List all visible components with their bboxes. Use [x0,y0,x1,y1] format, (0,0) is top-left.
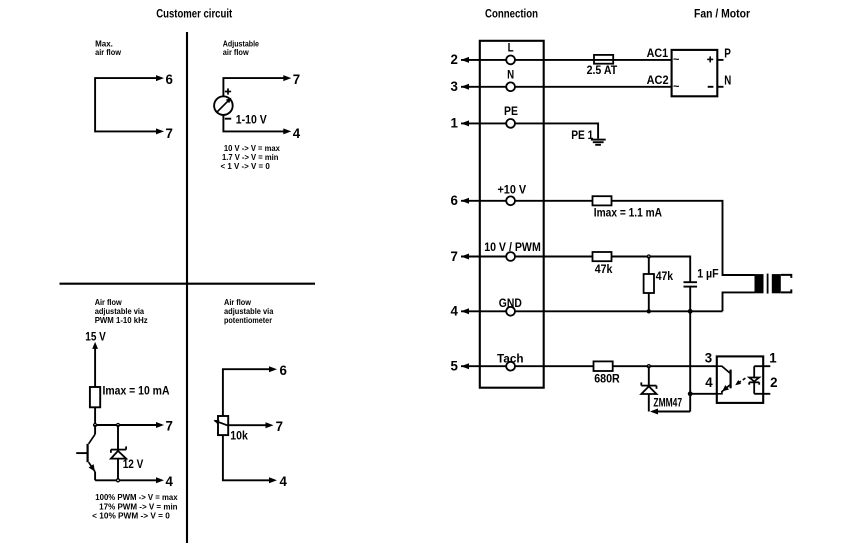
wire emitter to 4 (PWM quadrant) [95,477,164,483]
svg-text:10 V -> V = max: 10 V -> V = max [224,144,281,153]
terminal PE pin 1 arrow and wire [461,120,506,126]
svg-text:~: ~ [673,54,680,66]
optocoupler LED [749,366,759,394]
svg-text:47k: 47k [595,262,613,276]
stub P [717,59,723,61]
svg-text:6: 6 [166,71,174,87]
transistor Q1 emitter [89,462,96,480]
pin number 1 [451,115,459,131]
wire to 4 (potentiometer quadrant) [223,435,277,483]
transistor Q1 collector wire [89,425,96,444]
optocoupler U1 box [717,356,763,403]
terminal 10 V / PWM circle [506,252,515,261]
svg-text:potentiometer: potentiometer [224,315,273,325]
wire GND row [515,310,723,312]
label Max. air flow [95,38,121,57]
wire resistor to node [94,407,96,425]
svg-text:5: 5 [451,358,459,374]
terminal PE circle [506,119,515,128]
wire to 6 (max air flow) [95,75,164,134]
wire GND down to optocoupler pin 4 [689,311,691,394]
terminal label Tach [497,353,524,365]
note voltage levels [221,144,281,171]
svg-text:AC2: AC2 [647,73,669,87]
svg-text:Connection: Connection [485,7,538,21]
svg-text:7: 7 [293,71,301,87]
svg-text:1: 1 [769,350,777,366]
connection box [480,41,544,388]
svg-text:4: 4 [280,473,288,489]
terminal +10 V circle [506,196,515,205]
svg-text:10 V / PWM: 10 V / PWM [484,242,541,254]
zener diode ZMM47 [641,366,656,411]
svg-text:6: 6 [451,192,459,208]
terminal label 10 V / PWM [484,242,541,254]
svg-text:4: 4 [705,374,713,390]
stub pin 1 [754,365,770,367]
value 47k (vertical) [656,269,674,283]
title Customer circuit [156,7,232,21]
motor core line [767,274,769,294]
svg-text:4: 4 [166,473,174,489]
net label N (motor) [724,73,731,88]
junction node at resistor/collector [94,424,97,427]
label Air flow adjustable via PWM 1-10 kHz [95,297,148,325]
junction node at zener bottom [117,479,120,482]
wire Tach to optocoupler pin 3 [515,365,717,367]
node 4 (top-right) [293,125,301,141]
svg-text:4: 4 [451,303,459,319]
ground symbol PE1 [591,140,606,145]
value 680R [594,371,620,385]
value 2.5 AT [587,63,618,77]
svg-text:ZMM47: ZMM47 [653,395,682,409]
node 7 (top-left) [166,125,174,141]
svg-text:2: 2 [770,374,778,390]
resistor 680R [594,361,613,371]
terminal 10 V / PWM pin 7 arrow and wire [461,254,506,260]
pin number 4 [705,374,713,390]
svg-text:7: 7 [166,418,174,434]
svg-text:Fan / Motor: Fan / Motor [694,7,750,21]
wire pin 4 to junction [690,393,717,395]
terminal N pin 3 arrow and wire [461,84,506,90]
wire motor bottom to GND [723,292,755,311]
junction node PWM/47k [647,255,650,258]
svg-text:6: 6 [280,362,288,378]
potentiometer R 10k body [218,416,228,435]
junction node 47k/GND [647,310,650,313]
junction node at zener top [117,424,120,427]
value Imax = 10 mA [103,383,170,397]
junction node Tach/zener [647,365,650,368]
net label AC1 [647,46,669,60]
svg-text:N: N [507,69,514,81]
label Air flow adjustable via potentiometer [224,297,274,325]
svg-text:PWM 1-10 kHz: PWM 1-10 kHz [95,315,148,325]
motor winding block left [755,274,764,293]
svg-text:17% PWM -> V = min: 17% PWM -> V = min [99,502,178,511]
net label AC2 [647,73,669,87]
svg-text:1 µF: 1 µF [697,267,719,281]
svg-text:Imax = 1.1 mA: Imax = 1.1 mA [594,205,662,219]
svg-text:AC1: AC1 [647,46,669,60]
svg-text:1-10 V: 1-10 V [236,115,267,127]
junction node cap/GND [688,309,693,314]
svg-text:4: 4 [293,125,301,141]
label Adjustable air flow [223,38,260,57]
svg-text:< 1 V -> V = 0: < 1 V -> V = 0 [221,162,271,171]
resistor 47k horizontal [593,252,612,261]
minus polarity mark [225,118,231,120]
terminal N circle [506,82,515,91]
svg-text:47k: 47k [656,269,674,283]
motor winding block right [772,274,781,293]
svg-text:7: 7 [276,418,284,434]
plus polarity mark [225,88,231,94]
value 47k (horizontal) [595,262,613,276]
terminal Tach pin 5 arrow and wire [461,363,506,369]
plus mark (motor) [707,56,713,62]
svg-text:15 V: 15 V [85,330,106,344]
svg-text:Imax = 10 mA: Imax = 10 mA [103,383,170,397]
node 6 (potentiometer quadrant) [280,362,288,378]
pin number 3 [451,78,459,94]
terminal Tach circle [506,362,515,371]
AC mark top (~) [673,54,680,66]
svg-text:~: ~ [673,81,680,93]
svg-text:L: L [508,43,514,55]
svg-text:7: 7 [166,125,174,141]
pin number 4 [451,303,459,319]
pin number 2 [770,374,778,390]
junction node pin4/zener return [688,391,693,396]
terminal GND pin 4 arrow and wire [461,308,506,314]
potentiometer wiper arrow [214,420,228,426]
svg-text:Customer circuit: Customer circuit [156,7,232,21]
svg-text:2.5 AT: 2.5 AT [587,63,618,77]
terminal L circle [506,56,515,65]
stub N (motor) [717,86,723,88]
wire wiper to 7 (potentiometer quadrant) [228,422,273,428]
pin number 7 [451,248,459,264]
svg-text:3: 3 [451,78,459,94]
wire 15 V arrow up [92,342,98,387]
svg-text:7: 7 [451,248,459,264]
svg-text:+10 V: +10 V [497,185,526,197]
resistor 47k vertical [644,257,654,312]
resistor Imax = 1.1 mA [593,196,612,205]
svg-text:1: 1 [451,115,459,131]
fan-motor box [672,50,718,96]
title Connection [485,7,538,21]
svg-text:GND: GND [499,298,522,310]
node 7 (top-right) [293,71,301,87]
optocoupler phototransistor [717,366,731,394]
node 7 (potentiometer quadrant) [276,418,284,434]
resistor Imax = 10 mA [90,387,100,407]
voltage source V1 1-10 V [214,96,233,115]
terminal label +10 V [497,185,526,197]
fuse F1 2.5 AT [594,55,613,64]
stub pin 2 [754,393,770,395]
title Fan / Motor [694,7,750,21]
wire N to motor box [515,86,672,88]
value 1 uF [697,267,719,281]
pin number 2 [451,51,459,67]
value 10k [230,429,248,443]
value Imax = 1.1 mA [594,205,662,219]
svg-text:PE: PE [504,106,518,118]
terminal label PE [504,106,518,118]
pin number 6 [451,192,459,208]
optocoupler light arrow (dashed) [735,378,745,385]
AC mark bottom (~) [673,81,680,93]
net label P [724,46,731,61]
svg-text:N: N [724,73,731,88]
terminal label L [508,43,514,55]
wire voltage source to 4 [223,115,291,134]
pin number 1 [769,350,777,366]
pin number 5 [451,358,459,374]
node 6 (top-left) [166,71,174,87]
terminal GND circle [506,307,515,316]
node 7 (PWM quadrant) [166,418,174,434]
wire node to 7 (PWM quadrant) [95,422,164,428]
terminal label N [507,69,514,81]
transistor Q1 base [76,444,87,462]
capacitor C1 1 uF [684,282,698,311]
svg-text:air flow: air flow [95,47,121,57]
terminal label GND [499,298,522,310]
node 4 (PWM quadrant) [166,473,174,489]
divider vertical line [186,32,188,543]
net label PE 1 [571,128,593,142]
svg-text:10k: 10k [230,429,248,443]
wire to 6 (potentiometer quadrant) [223,366,277,416]
value ZMM47 [653,395,682,409]
terminal L pin 2 arrow and wire [461,57,506,63]
wire +10 V to motor (top) [515,201,755,275]
svg-text:air flow: air flow [223,47,249,57]
svg-text:680R: 680R [594,371,620,385]
wire zener return with arrow [650,394,690,415]
wire L to motor box [515,59,672,61]
svg-text:< 10% PWM -> V = 0: < 10% PWM -> V = 0 [92,511,170,520]
wire 10 V / PWM to capacitor [515,257,690,283]
value 1-10 V [236,115,267,127]
terminal +10 V pin 6 arrow and wire [461,198,506,204]
wire PE to ground [515,123,598,138]
svg-text:100% PWM -> V = max: 100% PWM -> V = max [95,493,178,502]
svg-text:PE 1: PE 1 [571,128,593,142]
pin number 3 [705,350,713,366]
svg-text:Tach: Tach [497,353,524,365]
motor terminal bars [781,275,792,293]
svg-text:3: 3 [705,350,713,366]
svg-text:P: P [724,46,731,61]
zener diode 12 V [111,425,126,480]
node 4 (potentiometer quadrant) [280,473,288,489]
divider horizontal line [60,283,316,285]
svg-text:2: 2 [451,51,459,67]
note PWM levels [92,493,178,520]
svg-text:12 V: 12 V [123,457,144,471]
svg-text:1.7 V -> V = min: 1.7 V -> V = min [222,153,279,162]
minus mark (motor) [708,86,714,88]
value 12 V [123,457,144,471]
wire voltage source to 7 [223,75,291,96]
supply 15 V [85,330,106,344]
